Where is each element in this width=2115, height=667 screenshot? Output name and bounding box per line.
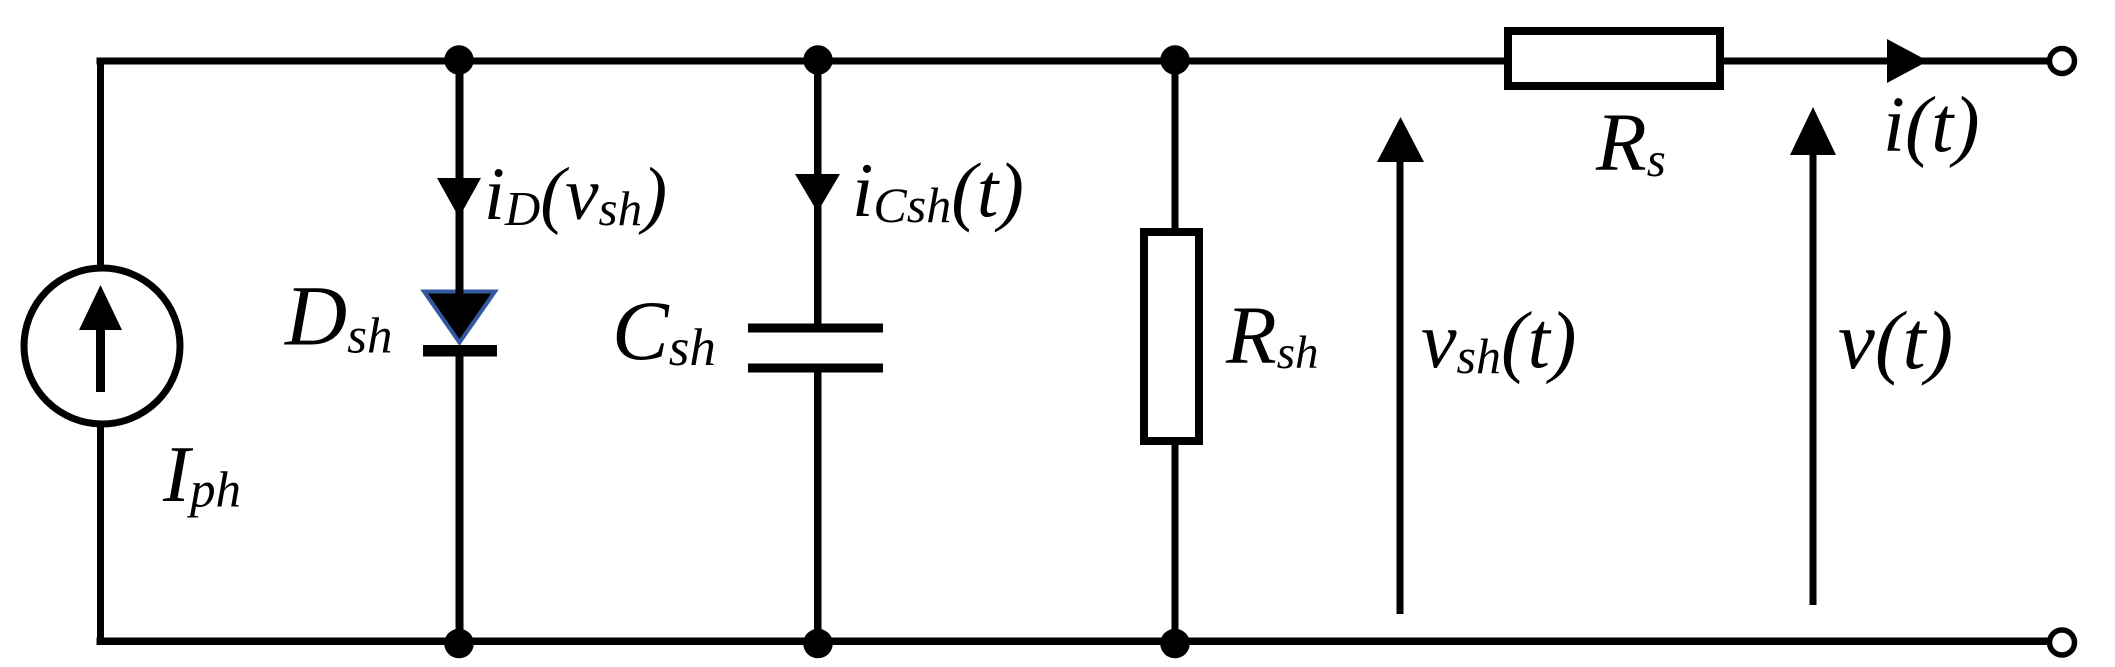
node top of capacitor branch <box>803 45 832 74</box>
svg-text:iCsh(t): iCsh(t) <box>852 147 1024 233</box>
terminal top right <box>2050 49 2075 74</box>
node bottom of Rsh branch <box>1160 629 1190 659</box>
current arrowhead iD <box>437 178 481 218</box>
wire diode branch lower <box>456 356 464 645</box>
wire capacitor branch lower <box>814 372 822 645</box>
wire left rail upper <box>97 58 104 270</box>
voltage arrow vsh shaft <box>1397 158 1404 614</box>
current source Iph circle <box>24 268 180 424</box>
capacitor Csh top plate <box>748 324 883 333</box>
svg-text:vsh(t): vsh(t) <box>1421 297 1577 385</box>
current source arrow shaft <box>96 328 105 392</box>
svg-text:iD(vsh): iD(vsh) <box>484 153 667 236</box>
node bottom of diode branch <box>444 629 474 659</box>
diode Dsh triangle <box>424 292 495 343</box>
voltage arrowhead vsh <box>1377 117 1424 162</box>
wire top bus left of Rs <box>97 58 1508 65</box>
current source arrowhead <box>79 285 122 330</box>
capacitor Csh bottom plate <box>748 364 883 373</box>
voltage arrow v shaft <box>1810 152 1817 605</box>
svg-text:Iph: Iph <box>162 429 241 519</box>
wire bottom bus <box>97 638 2048 646</box>
wire capacitor branch upper <box>814 61 822 324</box>
wire diode branch upper <box>456 61 464 297</box>
wire top bus right of Rs <box>1720 58 2051 65</box>
diode Dsh cathode bar <box>423 345 497 357</box>
resistor Rsh body <box>1144 232 1199 441</box>
svg-text:Dsh: Dsh <box>284 268 392 365</box>
svg-text:i(t): i(t) <box>1883 82 1980 169</box>
current arrowhead iCsh <box>795 174 840 212</box>
node bottom of capacitor branch <box>803 629 833 659</box>
current arrowhead i(t) <box>1887 39 1928 83</box>
svg-text:Csh: Csh <box>612 284 716 378</box>
resistor Rs body <box>1508 31 1720 86</box>
svg-text:Rsh: Rsh <box>1225 289 1319 381</box>
terminal bottom right <box>2050 630 2075 655</box>
wire Rsh branch upper <box>1172 61 1179 232</box>
node top of Rsh branch <box>1160 45 1189 74</box>
node top of diode branch <box>444 45 473 74</box>
wire left rail lower <box>97 424 104 645</box>
svg-text:v(t): v(t) <box>1838 294 1953 386</box>
voltage arrowhead v <box>1790 107 1836 155</box>
svg-text:Rs: Rs <box>1595 96 1666 188</box>
wire Rsh branch lower <box>1172 445 1179 645</box>
